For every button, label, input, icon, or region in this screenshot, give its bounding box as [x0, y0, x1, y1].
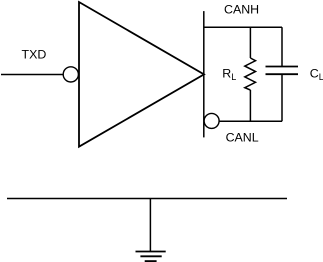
wire top rail CANH to load [204, 26, 282, 28]
wire TXD input [1, 74, 63, 76]
wire bottom rail CANL to load [219, 120, 282, 122]
capacitor CL bottom plate [266, 73, 299, 75]
svg-text:CANL: CANL [226, 131, 259, 145]
wire resistor bottom lead [249, 90, 251, 121]
bubble on CANL terminal [204, 113, 219, 128]
svg-text:CANH: CANH [224, 2, 259, 16]
svg-text:TXD: TXD [22, 48, 47, 62]
wire capacitor bottom lead [281, 75, 283, 121]
capacitor CL top plate [266, 66, 299, 68]
ground symbol [136, 252, 166, 262]
wire capacitor top lead [281, 27, 283, 66]
wire resistor top lead [249, 27, 251, 58]
svg-text:CL: CL [310, 67, 323, 82]
svg-text:RL: RL [222, 67, 236, 82]
wire ground rail [7, 198, 287, 200]
op-amp U1 driver triangle [79, 2, 204, 147]
wire CANH/CANL bus vertical [203, 11, 205, 137]
inverting bubble on driver input [63, 67, 78, 82]
wire ground stem [149, 199, 151, 252]
resistor RL zigzag [245, 58, 256, 90]
